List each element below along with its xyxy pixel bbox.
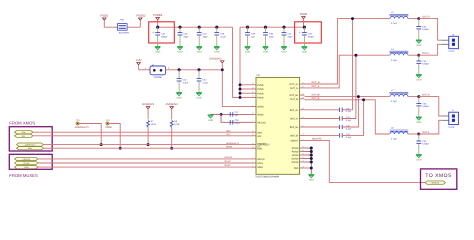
svg-text:ADR/FAULT3: ADR/FAULT3 — [226, 142, 239, 144]
wire TP4 to PDN net — [109, 124, 120, 149]
svg-text:LRCLK: LRCLK — [257, 158, 264, 161]
connector J7 — [449, 112, 459, 124]
svg-text:AGND: AGND — [292, 154, 299, 157]
svg-text:TP3: TP3 — [76, 119, 80, 121]
svg-text:C37: C37 — [235, 112, 239, 114]
pin 10 DGND — [300, 158, 305, 160]
pin 41 BST_B+ — [300, 126, 305, 128]
svg-text:L8: L8 — [391, 127, 394, 129]
svg-text:45: 45 — [302, 133, 304, 135]
svg-text:GND: GND — [196, 97, 201, 100]
svg-text:6: 6 — [303, 138, 304, 140]
svg-text:PVDD: PVDD — [300, 13, 308, 16]
svg-text:20: 20 — [302, 153, 304, 155]
svg-text:4.7µH: 4.7µH — [391, 22, 397, 24]
wire DVDD3V3 rail — [166, 69, 223, 71]
svg-text:GND: GND — [245, 51, 250, 54]
svg-text:OUT_B-: OUT_B- — [312, 97, 320, 100]
connector J6 — [449, 36, 459, 48]
node junction — [417, 95, 420, 98]
wire — [305, 134, 340, 136]
svg-text:SCL: SCL — [22, 135, 26, 137]
svg-text:PDN8: PDN8 — [226, 146, 232, 148]
wire — [139, 69, 150, 71]
pin 32 PVDD — [252, 96, 257, 98]
inductor L7 4.7uH — [390, 92, 409, 94]
capacitor C31 — [282, 26, 285, 29]
svg-text:OUT_A+: OUT_A+ — [289, 83, 298, 86]
svg-text:33: 33 — [302, 146, 304, 148]
svg-text:FROM XMOS: FROM XMOS — [9, 121, 35, 126]
pin 39 PGND — [300, 151, 305, 153]
pin 6 SDOUT — [300, 139, 305, 141]
ground — [155, 46, 161, 48]
wire to ground — [211, 113, 222, 115]
svg-text:C38: C38 — [235, 119, 239, 121]
svg-text:TP4: TP4 — [105, 119, 109, 121]
svg-text:C31: C31 — [287, 33, 291, 35]
node junction — [239, 83, 242, 86]
svg-text:SDOUT2: SDOUT2 — [431, 182, 439, 184]
pin 42 OUT_B+ — [300, 94, 305, 96]
svg-text:L3: L3 — [391, 11, 394, 13]
wire OUT_B- to L8 — [305, 100, 390, 134]
svg-text:OUT5: OUT5 — [449, 50, 455, 52]
svg-text:13: 13 — [302, 160, 304, 162]
port LRCLK2 — [15, 157, 39, 160]
capacitor C43 bootstrap — [339, 133, 341, 137]
pin 26 PVDD — [252, 88, 257, 90]
ground — [245, 46, 251, 48]
ground — [214, 46, 220, 48]
svg-text:330µF: 330µF — [308, 36, 314, 38]
svg-text:GND: GND — [176, 97, 181, 100]
svg-text:OUT3+: OUT3+ — [422, 94, 430, 97]
svg-text:OUT2+: OUT2+ — [422, 16, 430, 19]
svg-text:0.1µF: 0.1µF — [346, 136, 351, 138]
wire — [408, 96, 419, 98]
wire — [147, 127, 149, 145]
node junction — [119, 147, 122, 150]
pin 31 PVDD — [252, 92, 257, 94]
wire PAD to GND — [305, 167, 312, 169]
wire PVDD pin bus — [239, 85, 241, 98]
resistor R8 10.0k — [170, 121, 173, 128]
svg-text:DVDDE: DVDDE — [154, 76, 162, 79]
svg-text:GND: GND — [281, 51, 286, 54]
svg-text:C29: C29 — [251, 33, 255, 35]
wire AVDD — [221, 113, 252, 115]
ferrite bead FB1 — [118, 24, 128, 31]
svg-text:SDOUT: SDOUT — [290, 140, 298, 143]
svg-text:U3: U3 — [257, 74, 260, 77]
svg-text:10: 10 — [302, 156, 304, 158]
capacitor C32 — [178, 68, 181, 71]
ground — [308, 174, 314, 176]
svg-text:C34: C34 — [202, 79, 206, 81]
node junction — [354, 54, 357, 57]
svg-text:41: 41 — [302, 125, 304, 127]
svg-text:1µF: 1µF — [251, 36, 255, 38]
wire — [408, 54, 419, 56]
ground — [263, 46, 269, 48]
node junction — [417, 133, 420, 136]
node junction — [310, 157, 313, 160]
svg-text:OUT6: OUT6 — [449, 126, 455, 128]
wire TP3 to ADR/FAULT net — [79, 124, 101, 145]
wire — [408, 133, 419, 135]
svg-text:BST_A+: BST_A+ — [290, 109, 299, 112]
ground — [208, 114, 214, 116]
svg-text:FB1: FB1 — [120, 19, 124, 21]
svg-text:3.3V: 3.3V — [136, 59, 142, 62]
svg-text:7: 7 — [252, 120, 253, 122]
svg-text:0.1µF: 0.1µF — [346, 119, 351, 121]
node junction — [310, 167, 313, 170]
svg-text:GND: GND — [302, 51, 307, 54]
svg-text:C32: C32 — [183, 79, 187, 81]
capacitor C36 0.68uF — [418, 97, 420, 104]
svg-text:ADR/FAULT: ADR/FAULT — [25, 144, 35, 146]
port SCLK2 — [15, 161, 39, 164]
node junction — [310, 154, 313, 157]
svg-text:GND: GND — [214, 51, 219, 54]
svg-text:SCLK2: SCLK2 — [224, 160, 231, 162]
svg-text:ADR/FAULT: ADR/FAULT — [257, 144, 269, 147]
svg-text:4.7µH: 4.7µH — [391, 59, 397, 61]
wire LRCLK — [38, 158, 252, 160]
node junction — [239, 96, 242, 99]
capacitor C34 — [197, 68, 200, 71]
wire SDOUT — [305, 140, 425, 182]
svg-text:GND: GND — [416, 159, 421, 162]
svg-text:C25: C25 — [308, 33, 312, 35]
capacitor C30 — [264, 26, 267, 29]
capacitor C24 — [156, 26, 159, 29]
svg-text:34: 34 — [302, 116, 304, 118]
svg-text:PVDD2: PVDD2 — [153, 14, 162, 17]
svg-text:TO XMOS: TO XMOS — [425, 173, 451, 179]
svg-text:C36: C36 — [422, 103, 426, 105]
svg-text:DGND: DGND — [292, 158, 299, 161]
svg-text:OUT3-: OUT3- — [422, 131, 429, 134]
svg-text:33µF: 33µF — [287, 36, 292, 38]
node junction — [239, 92, 242, 95]
svg-text:OUT_B-: OUT_B- — [290, 98, 298, 101]
svg-text:SDA: SDA — [257, 131, 262, 134]
wire SCLK — [38, 162, 252, 164]
ground — [177, 46, 183, 48]
pin 33 PGND — [300, 147, 305, 149]
pin stubs — [441, 39, 449, 41]
wire PVDD rail drop — [239, 27, 241, 97]
svg-text:C30: C30 — [269, 33, 273, 35]
svg-text:35: 35 — [302, 86, 304, 88]
wire SDA — [33, 131, 252, 133]
svg-text:GND: GND — [416, 44, 421, 47]
svg-text:PVDD: PVDD — [257, 88, 263, 91]
wire — [419, 44, 442, 55]
wire — [419, 120, 442, 134]
svg-text:SDIN2: SDIN2 — [224, 164, 230, 166]
pin 8 DVDD — [252, 106, 257, 108]
ground — [416, 116, 422, 118]
jumper J4 DVDDE — [150, 66, 166, 75]
node junction — [239, 88, 242, 91]
inductor L4 4.7uH — [390, 50, 409, 52]
svg-text:BST_B+: BST_B+ — [290, 126, 299, 129]
capacitor C38 — [229, 120, 231, 124]
svg-text:33µF: 33µF — [269, 36, 274, 38]
svg-text:26: 26 — [252, 87, 254, 89]
pin 20 AGND — [300, 154, 305, 156]
svg-text:37: 37 — [302, 82, 304, 84]
wire OUT_A+ to L3 — [305, 19, 390, 84]
pin stubs — [441, 115, 449, 117]
svg-text:VR_DIG: VR_DIG — [257, 122, 266, 125]
node junction — [417, 17, 420, 20]
ground — [281, 46, 287, 48]
svg-text:PVDD: PVDD — [257, 92, 263, 95]
wire — [408, 18, 419, 20]
svg-text:LRCLK2: LRCLK2 — [224, 156, 232, 158]
svg-text:GND: GND — [309, 179, 314, 182]
node junction — [417, 54, 420, 57]
wire OUT_B+ to L7 — [305, 96, 390, 98]
capacitor C27 — [198, 26, 201, 29]
pin 37 OUT_A+ — [300, 83, 305, 85]
capacitor C37 — [229, 112, 231, 116]
node junction — [362, 98, 365, 101]
svg-text:J6: J6 — [452, 34, 454, 36]
wire PDN — [44, 147, 252, 149]
wire — [305, 126, 340, 128]
svg-text:SDIN: SDIN — [257, 166, 262, 169]
node junction — [310, 147, 313, 150]
svg-text:OUT_A+: OUT_A+ — [312, 81, 321, 84]
inductor L8 4.7uH — [390, 129, 409, 131]
pin 11 SDA — [252, 131, 257, 133]
pin 12 SCL — [252, 135, 257, 137]
svg-text:0.68µF: 0.68µF — [422, 63, 429, 65]
capacitor C33 0.68uF — [418, 19, 420, 27]
capacitor C29 — [246, 26, 249, 29]
svg-text:DVDD: DVDD — [257, 106, 264, 109]
svg-text:0.68µF: 0.68µF — [422, 105, 429, 107]
svg-text:33µF: 33µF — [183, 36, 188, 38]
wire — [104, 26, 117, 28]
resistor R7 10.0k — [147, 121, 150, 128]
svg-text:SCL: SCL — [226, 134, 230, 136]
svg-text:49: 49 — [302, 166, 304, 168]
capacitor C26 — [178, 26, 181, 29]
svg-text:12: 12 — [252, 134, 254, 136]
svg-text:PVDD: PVDD — [257, 84, 263, 87]
pin 3 SCLK — [252, 162, 257, 164]
svg-text:16: 16 — [252, 143, 254, 145]
svg-text:4.7µH: 4.7µH — [391, 138, 397, 140]
port PDN — [17, 147, 44, 150]
svg-text:39: 39 — [302, 149, 304, 151]
svg-text:10.0k: 10.0k — [174, 123, 179, 125]
svg-text:OUT_B+: OUT_B+ — [312, 94, 321, 97]
svg-text:42: 42 — [302, 93, 304, 95]
wire — [171, 127, 173, 148]
svg-text:+: + — [152, 31, 154, 34]
svg-text:J7: J7 — [452, 110, 454, 112]
ground — [196, 92, 202, 94]
port DIN2 — [15, 166, 39, 169]
svg-text:GND: GND — [177, 51, 182, 54]
svg-text:L7: L7 — [391, 89, 394, 91]
node junction — [170, 147, 173, 150]
svg-text:PDN: PDN — [28, 148, 32, 150]
wire PVDD2 rail drop to IC PVDD pins — [233, 27, 241, 97]
svg-text:OUT_A-: OUT_A- — [290, 87, 298, 90]
capacitor C42 bootstrap — [339, 125, 341, 129]
svg-text:GND: GND — [416, 79, 421, 82]
svg-text:DGND: DGND — [292, 161, 299, 164]
wire DVDD3V3 drop to DVDD pin — [222, 70, 251, 107]
wire to VR_DIG — [221, 114, 252, 122]
capacitor C39 0.68uF — [418, 134, 420, 141]
svg-text:GND: GND — [208, 119, 213, 122]
svg-text:33µF: 33µF — [203, 36, 208, 38]
svg-text:PAD: PAD — [294, 167, 299, 170]
wire — [305, 109, 340, 111]
svg-text:SDA: SDA — [226, 130, 230, 132]
svg-text:L4: L4 — [391, 48, 394, 50]
pin 21 AVDD — [252, 113, 257, 115]
svg-text:25: 25 — [252, 83, 254, 85]
svg-text:C28: C28 — [220, 33, 224, 35]
svg-text:PGND: PGND — [292, 147, 299, 150]
svg-text:GND: GND — [155, 51, 160, 54]
svg-text:FROM MUXES: FROM MUXES — [9, 174, 38, 179]
svg-text:DIN2: DIN2 — [24, 167, 28, 169]
svg-text:21: 21 — [252, 112, 254, 114]
svg-text:4.7µH: 4.7µH — [391, 100, 397, 102]
svg-text:1: 1 — [145, 68, 146, 70]
svg-text:ADR/FAULT3: ADR/FAULT3 — [75, 126, 89, 129]
svg-text:0.1µF: 0.1µF — [220, 36, 226, 38]
svg-text:330µF: 330µF — [161, 36, 167, 38]
svg-text:PVDD: PVDD — [101, 14, 109, 17]
svg-text:C33: C33 — [422, 26, 426, 28]
node AVDD junction — [220, 113, 223, 116]
svg-text:SCLK2: SCLK2 — [23, 162, 29, 164]
node junction — [310, 161, 313, 164]
wire SCL — [33, 135, 252, 137]
svg-text:DVDD3V3: DVDD3V3 — [142, 103, 154, 106]
svg-text:SDOUT5: SDOUT5 — [312, 138, 321, 141]
capacitor C28 — [215, 26, 218, 29]
wire ADR/FAULT — [44, 144, 252, 146]
svg-text:C24: C24 — [161, 33, 165, 35]
wire PVDD2 rail — [158, 26, 233, 28]
pin 4 LRCLK — [252, 158, 257, 160]
svg-text:15: 15 — [252, 146, 254, 148]
capacitor C25 — [303, 26, 306, 29]
port SCL — [15, 134, 34, 137]
svg-text:BST_B-: BST_B- — [290, 135, 298, 138]
wire — [419, 19, 442, 41]
svg-text:4.7µF: 4.7µF — [183, 82, 189, 84]
port ADR/FAULT — [17, 143, 44, 146]
ground — [416, 74, 422, 76]
node junction — [147, 143, 150, 146]
svg-text:11: 11 — [252, 130, 254, 132]
svg-text:PVDD: PVDD — [257, 97, 263, 100]
pin 25 PVDD — [252, 84, 257, 86]
svg-text:PGND: PGND — [292, 151, 299, 154]
node junction — [351, 17, 354, 20]
node junction — [357, 95, 360, 98]
sheet label FROM MUXES — [9, 154, 52, 169]
capacitor C35 0.68uF — [418, 55, 420, 61]
svg-text:44: 44 — [302, 97, 304, 99]
svg-text:4.7µF: 4.7µF — [202, 82, 208, 84]
node junction — [100, 143, 103, 146]
svg-text:R7: R7 — [151, 120, 154, 122]
svg-text:R8: R8 — [174, 120, 177, 122]
svg-text:PDN: PDN — [257, 147, 262, 150]
svg-text:32: 32 — [252, 95, 254, 97]
svg-text:0.68µF: 0.68µF — [422, 28, 429, 30]
svg-text:C35: C35 — [422, 60, 426, 62]
wire — [419, 97, 442, 116]
ground — [302, 46, 308, 48]
highlight box around C25 — [295, 22, 322, 43]
svg-text:DVDD3V3: DVDD3V3 — [210, 57, 222, 60]
ground — [196, 46, 202, 48]
svg-text:0.1µF: 0.1µF — [235, 122, 240, 124]
svg-text:+: + — [299, 31, 301, 34]
svg-text:GND: GND — [263, 51, 268, 54]
pin 34 BST_A- — [300, 118, 305, 120]
svg-text:0.1µF: 0.1µF — [346, 128, 351, 130]
svg-text:3: 3 — [252, 161, 253, 163]
pin 15 PDN — [252, 147, 257, 149]
svg-text:C39: C39 — [422, 140, 426, 142]
svg-text:1µF: 1µF — [235, 114, 239, 116]
svg-text:OUT_A-: OUT_A- — [312, 85, 320, 88]
svg-text:LRCLK2: LRCLK2 — [23, 158, 30, 160]
sheet label TO XMOS — [421, 169, 457, 189]
ground — [416, 154, 422, 156]
svg-text:AVDD: AVDD — [257, 114, 263, 117]
svg-text:31: 31 — [252, 91, 254, 93]
pin 13 DGND — [300, 161, 305, 163]
pin 49 PAD — [300, 167, 305, 169]
pin 5 SDIN — [252, 166, 257, 168]
svg-text:BLM18PG: BLM18PG — [119, 32, 129, 34]
svg-text:8: 8 — [252, 105, 253, 107]
svg-text:TAS5756MDCAPWPR: TAS5756MDCAPWPR — [255, 176, 279, 179]
pin 44 OUT_B- — [300, 98, 305, 100]
node junction — [310, 150, 313, 153]
wire DIN — [38, 166, 252, 168]
svg-text:5: 5 — [252, 165, 253, 167]
svg-text:38: 38 — [302, 108, 304, 110]
svg-text:BST_A-: BST_A- — [290, 118, 298, 121]
ground — [416, 39, 422, 41]
wire PVDD rail — [240, 26, 304, 28]
svg-text:PDN8: PDN8 — [105, 126, 111, 129]
pin 16 ADR/FAULT — [252, 144, 257, 146]
pin 38 BST_A+ — [300, 109, 305, 111]
svg-text:GND: GND — [197, 51, 202, 54]
